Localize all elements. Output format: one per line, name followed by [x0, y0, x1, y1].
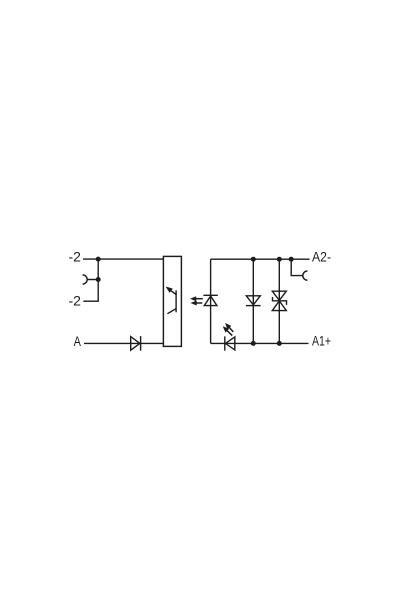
TVS suppressor diode (right branch) [272, 291, 286, 310]
node: top rail / middle branch [251, 257, 256, 262]
optocoupler output block U1 [163, 256, 181, 346]
node: top rail / right branch [277, 257, 282, 262]
wire: right branch [278, 259, 280, 343]
diode D1 (series diode in A line) [131, 336, 141, 351]
node: bottom rail / middle branch [251, 341, 256, 346]
svg-text:-2: -2 [69, 293, 82, 309]
wire: input left rail [210, 259, 212, 343]
diode D2 (reverse protection, middle branch) [246, 296, 261, 306]
socket contact (left jumper) [83, 275, 96, 284]
solid-state switch symbol (inside U1) [166, 287, 177, 314]
indicator LED emission arrows [223, 323, 234, 336]
node: top rail / A2 stub [289, 257, 294, 262]
wire: input top rail [211, 258, 310, 260]
wire: middle branch [252, 259, 254, 343]
svg-text:A: A [74, 333, 82, 349]
wire: A terminal to optocoupler input bottom [84, 342, 164, 344]
node: bottom rail / right branch [277, 341, 282, 346]
LED of optocoupler (left input branch) [203, 295, 217, 305]
svg-text:-2: -2 [69, 249, 82, 265]
wire: lower -2 terminal stub [83, 300, 99, 302]
wire: A2 socket stub [291, 259, 303, 275]
wire: input bottom rail [211, 342, 309, 344]
svg-text:A1+: A1+ [312, 332, 331, 348]
indicator LED (bottom rail) [225, 336, 235, 350]
svg-text:A2-: A2- [312, 248, 331, 264]
light coupling arrows (LED to switch) [190, 296, 203, 305]
node: top junction [96, 257, 101, 262]
socket contact (A2 side) [303, 271, 308, 280]
node: jumper contact junction [96, 277, 101, 282]
wire: -2 terminal to optocoupler input top [83, 258, 164, 260]
wire: jumper vertical [97, 259, 99, 301]
